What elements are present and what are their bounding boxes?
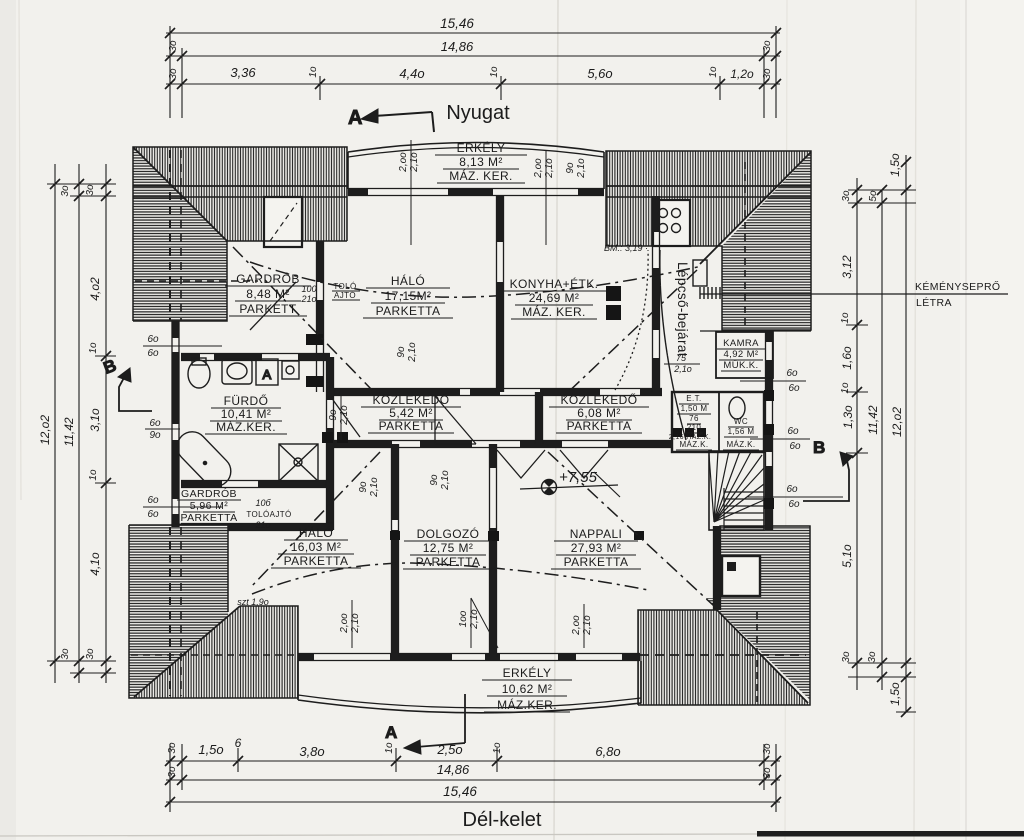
top exterior wall	[348, 188, 604, 190]
door blocks small rooms	[673, 428, 682, 437]
bottom dim ticks	[165, 756, 175, 766]
paper background shading	[0, 0, 16, 840]
svg-text:3o: 3o	[841, 190, 852, 202]
svg-text:3o: 3o	[168, 40, 179, 52]
svg-text:11,42: 11,42	[866, 405, 880, 434]
wall lines through top-right roof	[606, 185, 811, 187]
svg-text:6o: 6o	[788, 499, 800, 510]
svg-text:Nyugat: Nyugat	[446, 102, 510, 124]
svg-text:A: A	[385, 723, 398, 742]
top-right hip diagonal	[700, 152, 811, 264]
svg-text:3o: 3o	[60, 648, 71, 660]
svg-text:1,5o: 1,5o	[198, 742, 223, 757]
bottom exterior wall	[298, 653, 640, 655]
svg-text:TOLÓ: TOLÓ	[333, 282, 356, 291]
svg-text:+7,55: +7,55	[559, 469, 598, 486]
svg-text:3o: 3o	[762, 767, 773, 779]
kitchen sink top-right	[693, 260, 707, 286]
bottom-left roof outline	[129, 525, 298, 698]
svg-text:75: 75	[676, 353, 687, 363]
svg-text:6o: 6o	[149, 418, 161, 429]
svg-text:9o: 9o	[328, 409, 339, 421]
svg-text:12,o2: 12,o2	[38, 415, 52, 445]
door blocks corridor lower	[322, 432, 333, 443]
right exterior wall upper	[765, 330, 767, 530]
diagonal to bottom-left hip	[250, 452, 380, 588]
svg-text:5,6o: 5,6o	[587, 66, 612, 81]
right dim ticks	[852, 185, 862, 195]
wall line through bottom-right roof	[640, 654, 806, 656]
door block dolgozo	[390, 531, 400, 540]
svg-text:5,42 M²: 5,42 M²	[389, 406, 432, 420]
svg-text:PARKETT: PARKETT	[239, 302, 297, 316]
svg-text:21o: 21o	[300, 294, 316, 304]
left dim vertical 11,42	[78, 164, 80, 683]
level mark +7,55	[520, 469, 620, 498]
svg-text:KAMRA: KAMRA	[723, 338, 759, 349]
svg-text:MÁZ.K.: MÁZ.K.	[726, 440, 755, 449]
corridor upper wall	[330, 388, 662, 390]
svg-text:KONYHA+ÉTK.: KONYHA+ÉTK.	[510, 276, 599, 291]
right dim vertical segments	[856, 178, 858, 690]
svg-text:24,69 M²: 24,69 M²	[529, 291, 580, 305]
svg-text:9o: 9o	[396, 346, 407, 358]
svg-text:1o: 1o	[308, 66, 319, 78]
diagonal from top-right hip	[562, 270, 697, 398]
svg-text:10б: 10б	[255, 498, 271, 508]
roof hatch bottom-left horizontal band	[129, 525, 228, 698]
kamra box	[716, 332, 773, 378]
interior wall gardrob/halo	[316, 241, 318, 392]
svg-text:1,56 M: 1,56 M	[728, 427, 755, 436]
svg-text:14,86: 14,86	[441, 39, 474, 54]
fold line center	[554, 0, 558, 840]
svg-text:KÉMÉNYSEPRŐ: KÉMÉNYSEPRŐ	[915, 279, 1001, 293]
small rooms ET and WC box	[672, 392, 764, 452]
left dim vertical segments	[105, 164, 107, 683]
svg-text:2,5o: 2,5o	[436, 742, 462, 757]
stair fan	[709, 451, 764, 522]
svg-text:2,1o: 2,1o	[576, 158, 587, 179]
gardrob2 right wall	[326, 444, 328, 530]
door frame blocks gardrob wall	[306, 334, 323, 345]
bottom-right roof outline	[638, 526, 810, 705]
gardrob2 bottom wall	[181, 523, 333, 525]
kitchen right wall	[652, 196, 654, 392]
toilet	[188, 360, 210, 388]
door block nappali label	[634, 531, 644, 540]
bottom balcony arc	[298, 700, 641, 713]
section mark B right	[803, 438, 853, 501]
stair treads	[724, 492, 764, 527]
svg-text:PARKETTA: PARKETTA	[180, 512, 237, 524]
svg-text:2,1o: 2,1o	[369, 477, 380, 498]
roof hatch top-left horizontal band	[133, 147, 227, 321]
svg-text:2,oo: 2,oo	[571, 615, 582, 636]
svg-text:4,4o: 4,4o	[399, 66, 424, 81]
wall lines through top-left roof	[133, 185, 347, 187]
svg-text:8,13 M²: 8,13 M²	[459, 155, 502, 169]
entry steps	[700, 287, 720, 299]
svg-text:9o: 9o	[429, 474, 440, 486]
door swing halo2	[497, 450, 545, 478]
top-left hip diagonal	[133, 147, 227, 241]
svg-text:3o: 3o	[167, 766, 178, 778]
paper bottom edge line	[0, 834, 757, 836]
svg-text:6o: 6o	[147, 334, 159, 345]
kitchen stove	[659, 209, 668, 218]
svg-text:3o: 3o	[60, 185, 71, 197]
svg-text:1o: 1o	[492, 742, 503, 754]
washbasin	[222, 359, 252, 384]
upper valley curve	[250, 262, 702, 297]
svg-text:6: 6	[235, 736, 242, 750]
stair well walls	[709, 451, 764, 530]
svg-text:6o: 6o	[789, 441, 801, 452]
roof hatch bottom-right vertical band	[638, 610, 808, 705]
svg-text:1o: 1o	[840, 312, 851, 324]
top dim verticals	[169, 26, 171, 118]
door swing entry big arc	[615, 250, 648, 390]
corridor lower wall	[330, 440, 672, 442]
svg-text:1o: 1o	[840, 382, 851, 394]
svg-text:15,46: 15,46	[440, 16, 474, 31]
svg-text:BM.: 3,19 ·: BM.: 3,19 ·	[604, 243, 648, 253]
svg-text:ERKÉLY: ERKÉLY	[457, 140, 506, 155]
top balcony arc	[348, 143, 604, 153]
right dim vertical 12,02	[905, 155, 907, 712]
section mark A bottom	[385, 694, 465, 754]
bathtub	[171, 426, 237, 493]
svg-text:2,1o: 2,1o	[673, 364, 692, 374]
svg-text:AJTÓ: AJTÓ	[334, 291, 356, 300]
roof hatch bottom-right horizontal strip	[720, 526, 810, 598]
svg-text:HÁLÓ: HÁLÓ	[391, 273, 425, 288]
diagonal to bottom-right hip	[548, 452, 714, 606]
interior wall dolgozo/nappali	[489, 444, 491, 657]
svg-text:1,5o: 1,5o	[888, 682, 902, 706]
svg-text:11,42: 11,42	[62, 417, 76, 446]
svg-text:DOLGOZÓ: DOLGOZÓ	[417, 526, 480, 541]
svg-text:3o: 3o	[762, 743, 773, 755]
washing machine	[256, 359, 278, 385]
svg-text:6o: 6o	[147, 495, 159, 506]
svg-text:15,46: 15,46	[443, 784, 477, 799]
bathroom top wall	[181, 353, 330, 355]
interior wall halo2/dolgozo	[391, 444, 393, 657]
svg-text:1,3o: 1,3o	[841, 405, 855, 429]
fold line right	[914, 0, 916, 840]
left dim vertical 12,02	[54, 164, 56, 683]
roof hatch bottom-right triangle	[706, 598, 810, 700]
svg-text:76: 76	[689, 414, 699, 423]
svg-text:MÁZ. KER.: MÁZ. KER.	[522, 304, 586, 319]
svg-text:210: 210	[687, 423, 702, 432]
svg-text:2,1o: 2,1o	[407, 342, 418, 363]
svg-text:PARKETTA: PARKETTA	[376, 304, 441, 318]
svg-text:szt 1,9o: szt 1,9o	[237, 597, 269, 607]
svg-text:5,96 M²: 5,96 M²	[190, 500, 228, 512]
door gap in top-left roof	[264, 197, 302, 247]
wall above kamra	[700, 330, 811, 332]
door swing halo top	[435, 396, 476, 444]
left dim ticks	[50, 179, 60, 189]
section mark B left	[101, 356, 152, 411]
svg-text:1o: 1o	[384, 742, 395, 754]
svg-text:KÖZLEKEDŐ: KÖZLEKEDŐ	[561, 392, 638, 407]
svg-text:21o: 21o	[254, 520, 270, 530]
svg-text:MŰK.K.: MŰK.K.	[723, 360, 758, 371]
interior wall halo/konyha	[496, 196, 498, 392]
svg-text:1o: 1o	[489, 66, 500, 78]
label kemenysepro letra	[700, 293, 1008, 295]
chimney inset in bottom-right roof	[722, 556, 760, 596]
svg-text:MÁZ.K.: MÁZ.K.	[679, 440, 708, 449]
svg-text:Dél-kelet: Dél-kelet	[463, 809, 542, 831]
svg-text:4,o2: 4,o2	[88, 277, 102, 301]
svg-text:PARKETTA: PARKETTA	[564, 555, 629, 569]
svg-text:3,36: 3,36	[230, 65, 256, 80]
svg-text:1o: 1o	[88, 342, 99, 354]
roof hatch top-right vertical band	[606, 151, 811, 246]
svg-text:3,1o: 3,1o	[88, 408, 102, 432]
svg-text:6o: 6o	[786, 368, 798, 379]
left exterior wall	[171, 321, 173, 527]
top dim line 14,86	[166, 55, 780, 57]
door block nappali	[488, 531, 499, 541]
roof hatch top-left vertical band	[133, 147, 347, 241]
wc bowl	[729, 397, 745, 419]
top dim ticks	[165, 28, 175, 38]
bottom dim verticals	[169, 744, 171, 812]
svg-text:9o: 9o	[358, 481, 369, 493]
svg-text:12,75 M²: 12,75 M²	[423, 541, 474, 555]
roof hatch bottom-left vertical band	[134, 606, 298, 698]
roof hatch top-right horizontal band	[722, 153, 811, 330]
stair door gap in top-right roof	[653, 200, 690, 246]
lower valley curve	[252, 563, 648, 594]
right dim vertical 11,42	[881, 190, 883, 690]
wall hidden in bottom-left roof	[169, 527, 171, 696]
svg-text:6,8o: 6,8o	[595, 744, 620, 759]
svg-text:6o: 6o	[788, 383, 800, 394]
svg-text:3o: 3o	[841, 651, 852, 663]
svg-text:1,6o: 1,6o	[840, 346, 854, 370]
svg-text:16,03 M²: 16,03 M²	[291, 540, 342, 554]
svg-text:1oo: 1oo	[458, 610, 469, 627]
shower	[279, 444, 318, 481]
svg-text:9o: 9o	[149, 430, 161, 441]
svg-text:10,62 M²: 10,62 M²	[502, 682, 553, 696]
svg-text:4,1o: 4,1o	[88, 552, 102, 576]
svg-text:MÁZ.KER.: MÁZ.KER.	[497, 697, 557, 712]
svg-text:6o: 6o	[786, 484, 798, 495]
top-left roof outline	[133, 147, 347, 321]
bottom-left ridge dashed	[131, 654, 296, 656]
entry curved wall	[660, 250, 686, 440]
top-left ridge dashed	[135, 280, 258, 282]
nappali right wall	[713, 526, 715, 610]
pillar blocks right wall	[764, 390, 774, 401]
corridor center stub wall	[535, 392, 537, 444]
svg-text:3o: 3o	[762, 40, 773, 52]
svg-text:1o: 1o	[88, 469, 99, 481]
svg-text:2,oo: 2,oo	[533, 158, 544, 179]
svg-text:GARDRÓB: GARDRÓB	[181, 487, 237, 500]
svg-text:3o: 3o	[85, 184, 96, 196]
svg-text:17,15M²: 17,15M²	[385, 289, 432, 303]
bottom dim line 14,86	[166, 779, 780, 781]
svg-text:9o: 9o	[565, 162, 576, 174]
svg-text:6o: 6o	[147, 348, 159, 359]
svg-text:PARKETTA: PARKETTA	[379, 419, 444, 433]
svg-text:E.T.: E.T.	[686, 394, 701, 403]
svg-text:B: B	[813, 438, 826, 457]
bottom-right ridge dashed	[756, 612, 758, 702]
svg-text:2,16 HÁZ.K.: 2,16 HÁZ.K.	[669, 432, 712, 441]
svg-text:1o: 1o	[708, 66, 719, 78]
svg-text:KÖZLEKEDŐ: KÖZLEKEDŐ	[373, 392, 450, 407]
svg-text:FÜRDŐ: FÜRDŐ	[224, 393, 269, 408]
top-right roof outline	[606, 151, 811, 330]
diagonal from top-left hip	[233, 247, 372, 390]
svg-text:14,86: 14,86	[437, 762, 470, 777]
bottom-right hip diagonal	[717, 610, 808, 703]
svg-text:ERKÉLY: ERKÉLY	[503, 665, 552, 680]
svg-text:PARKETTA: PARKETTA	[416, 555, 481, 569]
top dim line 15,46	[166, 32, 780, 34]
svg-text:MÁZ. KER.: MÁZ. KER.	[449, 168, 513, 183]
svg-text:10,41 M²: 10,41 M²	[221, 407, 272, 421]
top-right ridge dashed	[744, 162, 746, 326]
gardrob2 top wall	[181, 480, 333, 482]
svg-text:PARKETTA: PARKETTA	[284, 554, 349, 568]
svg-text:TOLÓAJTÓ: TOLÓAJTÓ	[246, 510, 291, 519]
bathroom right wall	[326, 357, 328, 444]
svg-text:HÁLÓ: HÁLÓ	[299, 525, 333, 540]
svg-text:2,1o: 2,1o	[440, 470, 451, 491]
svg-text:4,92 M²: 4,92 M²	[723, 349, 758, 360]
svg-text:WC: WC	[734, 417, 748, 426]
svg-text:8,48 M²: 8,48 M²	[246, 287, 289, 301]
svg-text:3o: 3o	[85, 648, 96, 660]
svg-text:3o: 3o	[168, 68, 179, 80]
bottom dim line segments	[166, 760, 780, 762]
svg-text:A: A	[348, 107, 363, 129]
svg-text:5o: 5o	[868, 190, 879, 202]
svg-text:1,5o: 1,5o	[888, 153, 902, 177]
small cabinet	[282, 361, 299, 379]
left dim horizontals	[47, 183, 116, 185]
svg-text:1,2o: 1,2o	[730, 67, 754, 81]
dark scan bar bottom right	[757, 831, 1024, 837]
paper crease left	[19, 0, 21, 500]
svg-text:3,12: 3,12	[840, 255, 854, 279]
svg-text:6o: 6o	[147, 509, 159, 520]
door swing konyha	[560, 450, 608, 478]
door swing gardrob	[250, 282, 296, 330]
bottom dim line 15,46	[166, 801, 780, 803]
section mark A top	[348, 107, 434, 132]
svg-text:NAPPALI: NAPPALI	[570, 527, 623, 541]
svg-text:3o: 3o	[167, 742, 178, 754]
svg-text:1,50 M: 1,50 M	[681, 404, 708, 413]
svg-text:5,1o: 5,1o	[840, 544, 854, 568]
svg-text:3o: 3o	[867, 651, 878, 663]
door blocks kitchen	[606, 286, 621, 301]
bottom-left hip diagonal	[134, 606, 240, 697]
svg-text:LÉTRA: LÉTRA	[916, 296, 952, 309]
svg-text:3,8o: 3,8o	[299, 744, 324, 759]
svg-text:6o: 6o	[787, 426, 799, 437]
door swing bathroom	[333, 400, 360, 437]
top dim line segments	[166, 83, 780, 85]
svg-text:100: 100	[301, 284, 316, 294]
svg-text:2,oo: 2,oo	[398, 152, 409, 173]
svg-text:A: A	[262, 367, 271, 382]
svg-text:6,08 M²: 6,08 M²	[577, 406, 620, 420]
svg-text:3o: 3o	[762, 68, 773, 80]
right dim horizontals	[848, 189, 916, 191]
svg-text:MÁZ.KER.: MÁZ.KER.	[216, 419, 276, 434]
svg-text:12,o2: 12,o2	[890, 407, 904, 437]
svg-text:GARDRÓB: GARDRÓB	[236, 271, 299, 286]
svg-text:2,oo: 2,oo	[339, 613, 350, 634]
svg-text:27,93 M²: 27,93 M²	[571, 541, 622, 555]
svg-text:PARKETTA: PARKETTA	[567, 419, 632, 433]
svg-text:Lépcső-bejárat: Lépcső-bejárat	[675, 262, 690, 357]
